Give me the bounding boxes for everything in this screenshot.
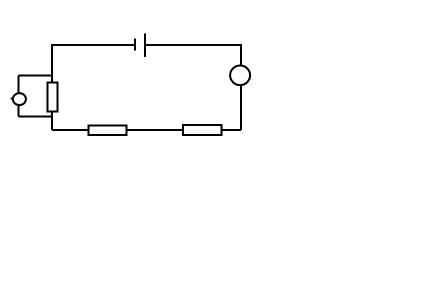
battery B1 negative plate (short bar): [134, 38, 136, 50]
wire right vertical (through ammeter): [240, 44, 242, 130]
wire top left (battery to top-left corner): [52, 44, 135, 46]
resistor R3 (bottom right): [183, 125, 222, 135]
wire parallel branch top: [19, 75, 53, 77]
wire voltmeter stub vertical: [18, 76, 20, 117]
wire parallel branch bottom: [19, 116, 53, 118]
voltmeter V1 left tick mark: [11, 98, 13, 100]
battery B1 positive plate (long bar): [144, 34, 146, 58]
wire left vertical (through resistor R1): [51, 44, 53, 130]
resistor R2 (bottom left): [88, 125, 126, 135]
wire top right (battery to top-right corner): [145, 44, 241, 46]
resistor R1 (vertical, left branch): [47, 82, 57, 111]
wire bottom: [52, 129, 241, 131]
ammeter A1: [230, 66, 250, 86]
voltmeter V1: [13, 93, 26, 105]
